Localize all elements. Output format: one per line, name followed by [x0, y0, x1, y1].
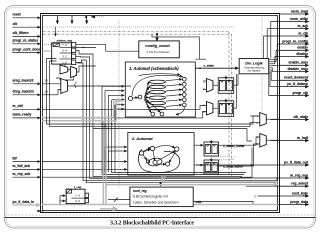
wire ff1 output: [234, 74, 238, 85]
wire status_reg row 7..0 to config_count: [76, 45, 139, 52]
wire mux m_halt out: [266, 139, 279, 141]
2. Automat inner ellipse: [148, 157, 163, 166]
input label mem_ready: [13, 113, 32, 117]
svg-text:c_state1_buffer: c_state1_buffer: [223, 144, 245, 148]
svg-text:2. Automat: 2. Automat: [131, 136, 153, 141]
svg-text:reg_select: reg_select: [291, 182, 309, 186]
input label m_obf: [13, 104, 24, 108]
wire m_ack output: [280, 28, 309, 30]
state machine box 1. Automat: [125, 62, 195, 117]
wire m_rep_ack across: [42, 148, 252, 178]
dotted net top (reset distribution): [43, 15, 235, 27]
output label enable: [297, 46, 308, 50]
status_reg bits 3..2: [62, 54, 76, 59]
gray trace vertical pair left: [103, 121, 106, 204]
dashed buffer boundary: [211, 157, 234, 160]
label LSB: [196, 200, 202, 204]
junction square on clk bus: [156, 33, 158, 35]
wire next_byte output: [280, 195, 309, 197]
register t_reg: [66, 185, 88, 204]
svg-text:m_halt: m_halt: [297, 136, 309, 140]
output label m_ack: [297, 24, 308, 28]
flip-flop pair group 2: [218, 99, 234, 117]
wire mux1 inputs stub: [203, 81, 207, 90]
svg-text:progr_data: progr_data: [290, 200, 308, 204]
output label pc_it_dataen: [287, 82, 308, 86]
output label progr_clk: [293, 91, 309, 95]
wires feeding output muxes: [219, 116, 260, 166]
output label disable: [296, 52, 308, 56]
svg-text:Zusammenfassung: Zusammenfassung: [244, 68, 264, 70]
svg-text:5..4: 5..4: [62, 48, 67, 52]
1. Automat transitions fan-out: [144, 82, 160, 113]
svg-text:0 bis 8 mit Reset: 0 bis 8 mit Reset: [146, 50, 169, 54]
2. Automat states: [139, 146, 179, 166]
wire konf_reg top feed: [160, 182, 162, 186]
wire reset input: [13, 17, 41, 19]
bottom-right gray arrow: [100, 208, 118, 210]
output label mem_read: [291, 9, 308, 13]
register status_reg: [52, 39, 73, 65]
wire reg_select output: [280, 185, 309, 187]
input label pc_it_data_in: [13, 200, 35, 204]
wire pc_it_data_out output: [280, 164, 309, 166]
1. Automat top arc transition: [132, 74, 183, 96]
clk down arrows from top edge: [57, 16, 86, 24]
svg-text:clk_state: clk_state: [293, 115, 308, 119]
wire reg_select long: [246, 185, 280, 187]
output label m_halt: [297, 136, 309, 140]
svg-text:disable_mux: disable_mux: [287, 67, 308, 71]
vertical feed bundle B: [102, 86, 115, 172]
wire c_state: [195, 64, 238, 69]
svg-text:clk_filtern: clk_filtern: [13, 31, 29, 35]
svg-text:disable: disable: [296, 52, 308, 56]
svg-text:progr_conf_done: progr_conf_done: [13, 47, 41, 51]
status_reg row divider: [60, 47, 72, 49]
bus width 4 into konf_reg: [114, 198, 118, 203]
input label reset: [13, 13, 22, 17]
input label clk: [13, 22, 18, 26]
svg-text:m_full_ack: m_full_ack: [13, 164, 31, 168]
mux group 1 select: [203, 79, 213, 93]
wire pc_it_dataen output: [280, 86, 309, 88]
wire mem_write output: [280, 21, 309, 23]
svg-text:m_rep_ack: m_rep_ack: [13, 172, 31, 176]
wire progr_data from konf_reg: [193, 202, 279, 205]
input label progr_conf_done: [13, 47, 41, 51]
wire m_reg_seg output: [280, 177, 309, 179]
svg-text:m_obf: m_obf: [13, 104, 24, 108]
wire mux out with width 8: [68, 81, 132, 89]
output label m_reg_seg: [290, 173, 308, 177]
wire reset_downcnt output: [280, 79, 309, 81]
output label reg_select: [291, 182, 309, 186]
register konf_reg: [130, 187, 193, 207]
svg-text:areg_maxcnt: areg_maxcnt: [13, 79, 35, 83]
wire bundle A turn right: [90, 172, 242, 178]
output label progr_m_config: [282, 39, 308, 43]
mux clk_state: [256, 113, 266, 127]
svg-text:dreg_maxcnt: dreg_maxcnt: [13, 90, 35, 94]
wire bundle B turn right: [102, 105, 246, 175]
output label progr_data: [290, 200, 308, 204]
1. Automat states: center ellipses: [149, 80, 165, 110]
wire clk bus to 1. Automat top right: [152, 34, 206, 59]
wire m_halt output: [271, 140, 309, 142]
1. Automat left pair transition: [133, 96, 138, 99]
output label pc_it_data_out: [284, 160, 309, 164]
svg-text:pc_it_data_out: pc_it_data_out: [284, 160, 309, 164]
wire enable_mux output: [280, 64, 309, 66]
wire areg into mux: [42, 83, 61, 85]
svg-text:3.3.2 Blockschaltbild PC-Inter: 3.3.2 Blockschaltbild PC-Interface: [110, 221, 194, 227]
svg-text:pc_it_dataen: pc_it_dataen: [287, 82, 308, 86]
output label m_clk: [298, 31, 308, 35]
svg-text:reset: reset: [13, 13, 22, 17]
1. Automat states: left circles: [128, 95, 142, 101]
wire progr_conf_done input: [13, 52, 41, 54]
svg-text:mem_ready: mem_ready: [13, 113, 32, 117]
wire mux clk_state out: [266, 118, 279, 120]
wire m_obf input: [13, 108, 41, 110]
svg-text:next_byte: next_byte: [292, 191, 308, 195]
status_reg bits 7..0: [62, 43, 76, 48]
wire progr_m_status input: [13, 43, 41, 45]
svg-text:mem_read: mem_read: [291, 9, 308, 13]
input label m_rep_ack: [13, 172, 31, 176]
wire m_clk vertical: [264, 36, 280, 59]
state machine box 2. Automat: [128, 133, 194, 176]
status_reg bits 1..0: [62, 60, 76, 65]
wires into 2. Automat left edge: [42, 147, 127, 169]
svg-text:progr_m_config: progr_m_config: [282, 39, 308, 43]
bus width label 16: [45, 90, 49, 94]
svg-text:pc_it_data_in: pc_it_data_in: [13, 200, 35, 204]
wire m_clk output: [280, 35, 309, 37]
svg-text:m_reg_seg: m_reg_seg: [290, 173, 308, 177]
input label progr_m_status: [13, 39, 39, 43]
svg-text:c_state: c_state: [204, 64, 215, 68]
wires into 1. Automat left edge: [102, 86, 124, 109]
wire areg_maxcnt input: [13, 83, 41, 85]
1. Automat transitions to right circles: [166, 79, 182, 106]
block Div. Logik: [239, 59, 269, 74]
status_reg row divider: [60, 58, 72, 60]
bus width label 20: [45, 79, 49, 83]
1. Automat states: right circles: [182, 77, 186, 107]
mux m_halt: [256, 134, 266, 148]
gray trace horizontal band: [42, 101, 116, 121]
wire mux2 to ff2: [213, 107, 218, 109]
1. Automat right column down arc: [176, 107, 184, 115]
svg-text:reset_downcnt: reset_downcnt: [284, 76, 309, 80]
svg-text:konf_reg: konf_reg: [133, 189, 147, 193]
wire mux1 to ff1: [213, 84, 218, 86]
wire progr_m_status into status_reg: [42, 44, 52, 46]
flip-flop pair group 1: [218, 76, 234, 94]
svg-text:progr_clk: progr_clk: [293, 91, 309, 95]
main block border: [41, 14, 280, 213]
wire progr_clk output: [280, 95, 309, 97]
output label reset_downcnt: [284, 76, 309, 80]
caption text: [110, 221, 194, 227]
dash-dot clk bus line A: [43, 31, 229, 33]
svg-text:enable_mux: enable_mux: [288, 61, 308, 65]
wire clk input: [13, 26, 41, 28]
svg-text:config_count: config_count: [145, 43, 170, 48]
2. Automat big loop: [138, 150, 179, 173]
output label mem_write: [290, 17, 308, 21]
svg-text:progr_m_status: progr_m_status: [13, 39, 39, 43]
2. Automat transitions: [143, 146, 176, 165]
svg-text:Laden, Schieben und Speichern: Laden, Schieben und Speichern: [133, 201, 179, 205]
mux below status_reg: [60, 65, 68, 74]
svg-text:1..0: 1..0: [62, 60, 67, 64]
wire m_obf across: [42, 106, 207, 110]
wire m_reg_seg long: [240, 177, 280, 179]
wire progr_m_config output: [280, 43, 309, 45]
svg-text:m_clk: m_clk: [298, 31, 308, 35]
svg-text:von Signalen: von Signalen: [247, 70, 261, 72]
svg-text:t_reg: t_reg: [74, 185, 82, 189]
wire bundle status_reg outputs: [76, 50, 93, 172]
svg-text:Div. Logik: Div. Logik: [245, 61, 263, 65]
input label dreg_maxcnt: [13, 90, 35, 94]
gray arrow into automat1: [115, 100, 123, 102]
wire clk_state output: [271, 119, 309, 121]
svg-text:8 Bit Schieberegister mit: 8 Bit Schieberegister mit: [133, 195, 168, 199]
svg-text:7..0: 7..0: [62, 43, 67, 47]
wire status mux loop left-down B: [50, 61, 100, 126]
1. Automat states: bottom circles: [151, 112, 164, 116]
wire dreg_maxcnt input: [13, 94, 41, 96]
wire disable output: [280, 56, 309, 58]
wire clk_filtern input: [13, 35, 41, 37]
flip-flop c_state_buffer: [204, 158, 244, 174]
wires Div. Logik outputs: [269, 44, 280, 96]
svg-text:mem_write: mem_write: [290, 17, 308, 21]
input label areg_maxcnt: [13, 79, 35, 83]
wire pc_it_data_in input: [13, 204, 41, 206]
svg-text:3..2: 3..2: [62, 54, 67, 58]
wire status mux loop left-down A: [47, 59, 97, 125]
gray trace pc_it_data_in along bottom: [42, 204, 278, 206]
wire mem_ready across: [42, 112, 207, 118]
wire mem_ready input: [13, 117, 41, 119]
mux areg/dreg select: [61, 79, 68, 94]
dashed bus turn down at right: [229, 32, 232, 176]
dash-dot clk bus line B: [43, 33, 232, 35]
long wire y180.6: [83, 172, 277, 181]
output label enable_mux: [288, 61, 308, 65]
input label clk_filtern: [13, 31, 29, 35]
svg-text:3..0: 3..0: [75, 199, 80, 203]
wire into c_state_buffer: [194, 164, 203, 166]
wire ff2 output: [234, 74, 237, 108]
counter config_count: [139, 41, 180, 58]
wire ibf input: [13, 161, 41, 163]
wire into konf_reg left: [108, 199, 130, 201]
clk drop to config_count: [156, 34, 158, 41]
constant 0 for next_byte: [254, 194, 280, 198]
wire disable_mux output: [280, 70, 309, 72]
wire enable output: [280, 49, 309, 51]
wire m_full_ack input: [13, 168, 41, 170]
flip-flop c_state1_buffer: [204, 140, 245, 156]
svg-text:enable: enable: [297, 46, 308, 50]
status_reg clock box: [53, 43, 59, 46]
output label clk_state: [293, 115, 308, 119]
output label next_byte: [292, 191, 308, 195]
bottom-left small arrow: [37, 210, 44, 212]
mux group 2 select: [203, 102, 213, 116]
svg-text:8: 8: [75, 81, 77, 85]
input label m_full_ack: [13, 164, 31, 168]
svg-text:1. Automat (schematisch): 1. Automat (schematisch): [129, 66, 179, 71]
long wire bus y126.3: [99, 123, 250, 128]
wire progr_conf_done into status_reg: [42, 50, 52, 52]
output label disable_mux: [287, 67, 308, 71]
gray trace right of 2. Automat: [106, 175, 278, 184]
status_reg row divider: [60, 52, 72, 54]
input label ibf: [13, 156, 18, 160]
svg-text:clk: clk: [13, 22, 18, 26]
wire pc_it_data_out long: [196, 164, 280, 166]
wire m_ack vertical: [267, 29, 279, 59]
svg-text:m_ack: m_ack: [297, 24, 308, 28]
wires into t_reg: [59, 196, 65, 206]
caption separator: [5, 215, 316, 218]
wire into c_state1_buffer: [194, 144, 203, 146]
status_reg bits 5..4: [62, 48, 76, 53]
dotted vertical net x262: [261, 15, 263, 120]
wire status mux feed: [56, 64, 96, 80]
wire dreg into mux: [42, 90, 61, 95]
wire m_rep_ack input: [13, 176, 41, 178]
wire mem_read output: [280, 13, 309, 15]
wire progr_data output: [280, 204, 309, 206]
clk drop arrow into status_reg: [55, 27, 57, 36]
dotted vertical net x119: [118, 21, 120, 188]
long wire bus y124: [96, 116, 256, 125]
long wire bus y128.5: [93, 128, 252, 141]
mux status second: [71, 66, 77, 77]
wire mem_write vertical: [271, 22, 280, 59]
long wire y182.6: [86, 172, 279, 186]
svg-text:7..4: 7..4: [75, 194, 80, 198]
